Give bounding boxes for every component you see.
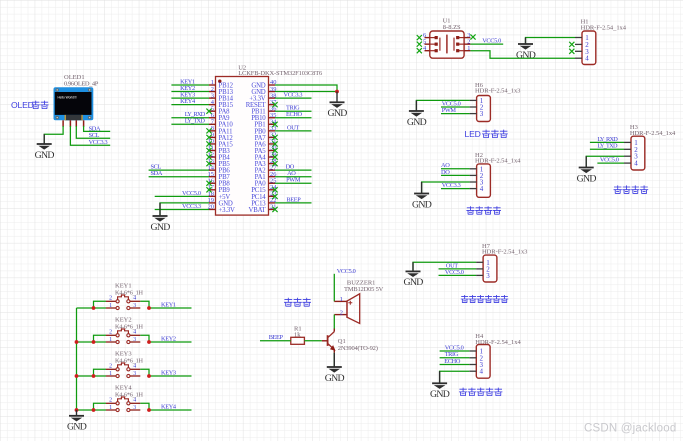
- wire U2 pin19 GND to ground: [160, 203, 209, 217]
- svg-text:VCC3.3: VCC3.3: [182, 203, 201, 210]
- wire bus to KEY3: [77, 375, 106, 377]
- switch U1 8-8.ZS: [423, 18, 470, 59]
- no-connect X H1 pin2: [569, 42, 574, 47]
- svg-text:LY_TXD: LY_TXD: [185, 118, 206, 125]
- svg-text:PWM: PWM: [442, 107, 457, 114]
- svg-text:OLED: OLED: [11, 100, 34, 110]
- wire H7 pin1 to ground: [413, 262, 476, 272]
- svg-text:8-8.ZS: 8-8.ZS: [443, 24, 461, 31]
- ground GND near H2: [412, 182, 432, 210]
- wire LY_RXD to U2 pin 6: [171, 117, 209, 119]
- wire H2 pin3 to ground: [422, 182, 470, 194]
- svg-text:1: 1: [109, 337, 112, 343]
- wire PWM to H6 pin3: [441, 113, 470, 115]
- svg-text:KEY1: KEY1: [115, 283, 132, 290]
- no-connect X U2 pin 10: [206, 141, 211, 146]
- svg-text:3: 3: [486, 272, 490, 280]
- module label 蜂鸣器: [284, 298, 311, 307]
- svg-text:GND: GND: [35, 150, 55, 161]
- svg-text:0.96OLED_4P: 0.96OLED_4P: [64, 80, 99, 87]
- wire AO to H2 pin1: [441, 168, 470, 170]
- svg-text:SDA: SDA: [151, 170, 163, 177]
- wire buzzer pin2 to Q1 collector: [333, 315, 335, 329]
- wire OUT to H7 pin2: [439, 268, 477, 270]
- svg-text:2: 2: [109, 397, 112, 403]
- svg-text:K4-6*6_1H: K4-6*6_1H: [115, 324, 143, 331]
- svg-text:4: 4: [133, 295, 136, 301]
- svg-text:VCC5.0: VCC5.0: [600, 157, 619, 164]
- svg-text:VCC3.3: VCC3.3: [442, 182, 461, 189]
- svg-text:2N3904(TO-92): 2N3904(TO-92): [338, 345, 378, 352]
- wire H3 pin3 to ground: [586, 156, 624, 168]
- wire VCC5.0 to buzzer pin1: [333, 274, 335, 302]
- svg-text:GND: GND: [403, 277, 423, 288]
- wire KEY3 to U2 pin 3: [171, 97, 209, 99]
- module label OLED模块: [11, 100, 49, 110]
- svg-text:4: 4: [480, 185, 484, 193]
- push button KEY4 K4-6*6_1H: [106, 385, 144, 412]
- OLED module display component OLED1: [54, 74, 99, 127]
- wire KEY2 to label: [140, 335, 149, 342]
- svg-text:3: 3: [133, 405, 136, 411]
- svg-text:KEY2: KEY2: [115, 317, 132, 324]
- wire SCL to U2 pin 14: [149, 169, 209, 171]
- junction dot KEY1 left: [92, 306, 96, 310]
- wire OLED pin1 to ground: [44, 126, 63, 145]
- svg-text:K4-6*6_1H: K4-6*6_1H: [115, 392, 143, 399]
- wire OUT from U2 pin 33: [275, 130, 312, 132]
- wire key ground bus: [76, 308, 78, 411]
- connector H7 HDR-F-2.54_1x3: [476, 243, 527, 282]
- ground GND buzzer: [325, 353, 345, 384]
- wire bus to KEY1: [77, 307, 106, 309]
- svg-text:GND: GND: [430, 389, 450, 400]
- push button KEY2 K4-6*6_1H: [106, 317, 144, 344]
- connector H2 HDR-F-2.54_1x4: [470, 152, 522, 197]
- svg-text:CSDN @jacklood: CSDN @jacklood: [584, 423, 676, 435]
- junction dot KEY4 right: [147, 408, 151, 412]
- ground GND right of U2: [327, 92, 347, 120]
- svg-text:2: 2: [109, 295, 112, 301]
- svg-text:KEY1: KEY1: [161, 302, 176, 309]
- no-connect X U2 pin 21: [272, 207, 277, 212]
- svg-text:K4-6*6_1H: K4-6*6_1H: [115, 290, 143, 297]
- module label 蓝牙模块: [614, 185, 649, 193]
- no-connect X U1 left pin: [417, 35, 422, 40]
- wire BEEP from U2 pin 22: [275, 202, 312, 204]
- no-connect X U1 pin3: [470, 34, 475, 39]
- svg-text:4: 4: [585, 55, 589, 63]
- wire KEY1 to label: [140, 301, 149, 308]
- module label 超声波模块: [459, 388, 502, 396]
- wire VCC5.0 to H3 pin4: [597, 162, 624, 164]
- svg-text:TMB12D05 5V: TMB12D05 5V: [344, 286, 384, 293]
- buzzer BUZZER1 TMB12D05 5V: [334, 280, 383, 324]
- wire VCC5.0 to H4 pin1: [440, 350, 470, 352]
- wire H6 pin1 to ground: [416, 100, 469, 111]
- svg-text:KEY3: KEY3: [161, 370, 176, 377]
- connector H3 HDR-F-2.54_1x4: [624, 124, 676, 170]
- wire KEY3 to label: [140, 369, 149, 376]
- svg-text:VCC5.0: VCC5.0: [182, 190, 201, 197]
- ground GND near H1: [516, 38, 536, 61]
- wire DO from U2 pin 27: [275, 169, 312, 171]
- svg-text:ECHO: ECHO: [444, 358, 461, 365]
- svg-text:4: 4: [133, 329, 136, 335]
- svg-text:3: 3: [133, 303, 136, 309]
- wire LY_TXD to H3 pin2: [590, 148, 624, 150]
- svg-text:3: 3: [133, 337, 136, 343]
- no-connect X U2 pin 17: [206, 187, 211, 192]
- push button KEY3 K4-6*6_1H: [106, 351, 144, 378]
- resistor R1 1k: [291, 326, 305, 345]
- svg-text:Hello World!!!: Hello World!!!: [58, 96, 77, 100]
- svg-text:BEEP: BEEP: [269, 334, 284, 341]
- svg-text:LED: LED: [465, 129, 481, 139]
- svg-text:HDR-F-2.54_1x3: HDR-F-2.54_1x3: [475, 88, 520, 95]
- ground GND key bus: [67, 410, 87, 433]
- svg-text:3: 3: [480, 110, 484, 118]
- no-connect X U2 pin 31: [272, 141, 277, 146]
- svg-text:LY_TXD: LY_TXD: [597, 143, 618, 150]
- wire TRIG to H4 pin2: [440, 357, 470, 359]
- junction dot bus row 3: [75, 374, 79, 378]
- svg-text:GND: GND: [407, 117, 427, 128]
- svg-text:VCC5.0: VCC5.0: [337, 268, 356, 275]
- svg-text:GND: GND: [327, 108, 347, 119]
- no-connect X U2 pin 8: [206, 128, 211, 133]
- svg-text:KEY4: KEY4: [161, 404, 177, 411]
- svg-text:GND: GND: [516, 50, 536, 61]
- MCU U2 LCKFB-DKX-STM32F103C8T6: [208, 65, 323, 216]
- wire VCC5.0 to H7 pin3: [439, 274, 477, 276]
- svg-text:GND: GND: [412, 199, 432, 210]
- wire U1 pin1 to H1 pin4: [470, 51, 575, 59]
- wire ECHO from U2 pin 35: [275, 117, 312, 119]
- wire U2 pin40 GND: [275, 85, 337, 92]
- svg-text:1: 1: [109, 303, 112, 309]
- svg-text:4: 4: [133, 397, 136, 403]
- wire SDA to U2 pin 15: [149, 176, 209, 178]
- svg-text:DO: DO: [441, 169, 450, 176]
- no-connect X U2 pin 28: [272, 161, 277, 166]
- wire VCC3.3 to U2 pin 20: [155, 208, 209, 210]
- svg-text:2: 2: [109, 329, 112, 335]
- svg-text:VCC5.0: VCC5.0: [482, 38, 501, 45]
- wire bus to KEY4: [77, 409, 106, 411]
- svg-text:BEEP: BEEP: [286, 196, 301, 203]
- wire SDA from OLED pin4: [84, 126, 111, 131]
- no-connect X U1 left pin: [417, 48, 422, 53]
- wire bus to KEY2: [77, 341, 106, 343]
- wire DO to H2 pin2: [441, 174, 470, 176]
- ground GND near OLED: [35, 134, 55, 161]
- svg-text:4: 4: [480, 368, 484, 376]
- svg-text:VBAT: VBAT: [249, 207, 267, 214]
- no-connect X U2 pin 9: [206, 135, 211, 140]
- wire H1 pin1 to ground: [526, 38, 576, 45]
- connector H1 HDR-F-2.54_1x4: [575, 19, 627, 65]
- push button KEY1 K4-6*6_1H: [106, 283, 144, 310]
- connector H6 HDR-F-2.54_1x3: [470, 82, 521, 122]
- svg-text:GND: GND: [577, 173, 597, 184]
- no-connect X U2 pin 23: [272, 194, 277, 199]
- no-connect X H1 pin3: [569, 49, 574, 54]
- svg-text:ECHO: ECHO: [286, 111, 303, 118]
- wire LY_RXD to H3 pin1: [590, 141, 624, 143]
- no-connect X U2 pin 13: [206, 161, 211, 166]
- wire TRIG from U2 pin 36: [275, 110, 312, 112]
- junction dot KEY1 right: [147, 306, 151, 310]
- junction dot KEY2 right: [147, 340, 151, 344]
- svg-text:OUT: OUT: [287, 124, 299, 131]
- junction dot GND net: [335, 90, 339, 94]
- junction dot KEY4 left: [92, 408, 96, 412]
- wire ECHO to H4 pin3: [440, 364, 470, 366]
- svg-text:K4-6*6_1H: K4-6*6_1H: [115, 358, 143, 365]
- transistor Q1 2N3904(TO-92): [322, 329, 378, 353]
- no-connect X U2 pin 37: [272, 102, 277, 107]
- no-connect X U2 pin 12: [206, 154, 211, 159]
- svg-text:1: 1: [109, 371, 112, 377]
- no-connect X U2 pin 5: [206, 109, 211, 114]
- wire LY_TXD to U2 pin 7: [171, 123, 209, 125]
- svg-text:VCC5.0: VCC5.0: [445, 269, 464, 276]
- no-connect X U2 pin 34: [272, 122, 277, 127]
- ground GND near H6: [407, 100, 427, 127]
- no-connect X U1 left pin: [417, 42, 422, 47]
- no-connect X U2 pin 30: [272, 148, 277, 153]
- ground GND near H4: [430, 371, 450, 400]
- wire R1 to Q1 base: [304, 340, 321, 342]
- svg-text:VCC3.3: VCC3.3: [89, 139, 108, 146]
- svg-text:KEY4: KEY4: [180, 98, 196, 105]
- svg-text:VCC3.3: VCC3.3: [284, 92, 303, 99]
- wire KEY2 to U2 pin 2: [171, 91, 209, 93]
- svg-text:SCL: SCL: [89, 132, 100, 139]
- junction dot bus row 2: [75, 340, 79, 344]
- svg-text:2: 2: [109, 363, 112, 369]
- wire AO from U2 pin 26: [275, 176, 312, 178]
- junction dot KEY3 left: [92, 374, 96, 378]
- junction dot bus row 4: [75, 408, 79, 412]
- svg-text:GND: GND: [150, 222, 170, 233]
- svg-text:GND: GND: [67, 422, 87, 433]
- wire SCL from OLED pin3: [76, 126, 110, 138]
- svg-text:1: 1: [467, 45, 470, 52]
- svg-text:2: 2: [340, 309, 343, 316]
- module label 人体感应模块: [461, 295, 508, 303]
- svg-text:1: 1: [340, 296, 343, 303]
- svg-text:+3.3V: +3.3V: [219, 207, 236, 214]
- wire BEEP to R1: [260, 340, 291, 342]
- ground GND below-left of U2: [150, 203, 170, 233]
- svg-text:SDA: SDA: [89, 125, 101, 132]
- ground GND near H7: [403, 262, 423, 288]
- module label 光照模块: [466, 206, 501, 214]
- connector H4 HDR-F-2.54_1x4: [469, 333, 521, 378]
- svg-text:KEY3: KEY3: [115, 351, 132, 358]
- svg-text:4: 4: [133, 363, 136, 369]
- wire KEY4 to U2 pin 4: [171, 104, 209, 106]
- no-connect X U2 pin 29: [272, 154, 277, 159]
- svg-text:GND: GND: [325, 373, 345, 384]
- module label LED灯模块: [465, 129, 508, 139]
- svg-text:1: 1: [109, 405, 112, 411]
- wire VCC3.3 to H2 pin4: [441, 188, 470, 190]
- no-connect X U2 pin 11: [206, 148, 211, 153]
- wire KEY1 to U2 pin 1: [171, 84, 209, 86]
- wire VCC5.0 from U1 pin2: [470, 43, 503, 45]
- svg-text:3: 3: [133, 371, 136, 377]
- wire VCC5.0 to H6 pin2: [441, 106, 470, 108]
- wire VCC3.3 from OLED pin2: [70, 126, 110, 145]
- no-connect X U2 pin 16: [206, 181, 211, 186]
- no-connect X U2 pin 32: [272, 135, 277, 140]
- wire PWM from U2 pin 25: [275, 182, 312, 184]
- svg-text:4: 4: [634, 160, 638, 168]
- svg-text:PWM: PWM: [286, 177, 301, 184]
- no-connect X U2 pin 24: [272, 187, 277, 192]
- svg-text:HDR-F-2.54_1x4: HDR-F-2.54_1x4: [581, 24, 627, 31]
- junction dot KEY2 left: [92, 340, 96, 344]
- svg-text:KEY2: KEY2: [161, 336, 176, 343]
- wire H4 pin4 to ground: [440, 371, 470, 384]
- wire VCC3.3 from U2 pin 38: [275, 97, 312, 99]
- wire KEY4 to label: [140, 403, 149, 410]
- wire U2 pin39 GND: [275, 91, 337, 93]
- wire Q1 emitter to ground: [333, 353, 335, 368]
- wire VCC5.0 to U2 pin 18: [155, 195, 209, 197]
- ground GND near H3: [577, 156, 597, 184]
- svg-text:KEY4: KEY4: [115, 385, 132, 392]
- junction dot KEY3 right: [147, 374, 151, 378]
